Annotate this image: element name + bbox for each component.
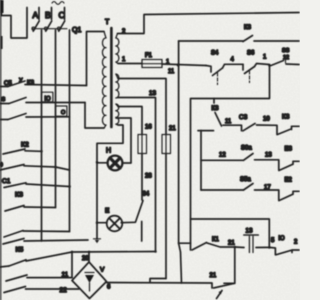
wire phase C down: [69, 30, 71, 232]
thermal element KK1 on phase A: [42, 92, 53, 102]
svg-text:10: 10: [263, 117, 270, 123]
page edge line: [0, 0, 2, 300]
wire phase A down: [41, 30, 43, 241]
svg-text:12: 12: [283, 55, 289, 61]
fuse F2 (16): [138, 135, 147, 154]
svg-text:Т: Т: [105, 19, 110, 26]
svg-text:К2: К2: [21, 142, 29, 149]
wire riser to K3 rail: [178, 41, 180, 65]
transformer secondary 3: [116, 104, 119, 125]
svg-text:1З: 1З: [149, 91, 156, 97]
svg-text:ЕЗ: ЕЗ: [285, 147, 293, 153]
svg-text:Е: Е: [105, 208, 110, 215]
contact lamp E switch: [136, 201, 144, 223]
contact row 11 (y277): [6, 275, 27, 281]
svg-text:34: 34: [143, 192, 150, 198]
svg-text:21: 21: [169, 126, 176, 132]
wire sec3 top drop: [118, 107, 142, 135]
wire fuse to buttons rail: [162, 64, 206, 66]
wire sec3 tap to lamp H: [116, 118, 131, 163]
wire rectifier top link: [88, 252, 90, 263]
contact limit switch S1: [214, 283, 235, 288]
svg-text:F1: F1: [145, 53, 153, 59]
transformer T core: [110, 28, 113, 127]
svg-text:К1: К1: [212, 237, 219, 243]
svg-text:Н: Н: [106, 148, 111, 155]
svg-text:Е2: Е2: [285, 178, 293, 184]
wire primary top lead: [87, 32, 105, 86]
svg-text:Ѕ: Ѕ: [2, 97, 6, 103]
contact row y222: [4, 231, 23, 238]
ladder row 1 (y130): [198, 130, 214, 132]
contact K3 top rail: [179, 40, 243, 42]
contact row y241: [3, 239, 24, 245]
switch Q1 pole 2: [51, 8, 53, 20]
svg-text:13: 13: [265, 153, 272, 159]
wire phase B down: [55, 30, 57, 208]
contact K1 row: [179, 242, 191, 244]
svg-text:0: 0: [0, 163, 3, 169]
svg-text:В: В: [45, 10, 51, 20]
wire sec1 bottom to fuse: [118, 63, 142, 65]
wire bottom AC bus: [26, 252, 156, 262]
svg-text:16: 16: [145, 125, 152, 131]
svg-text:21: 21: [210, 273, 217, 279]
node junction button rail: [268, 64, 271, 67]
svg-text:17: 17: [264, 185, 271, 191]
node AC squiggle: [52, 2, 64, 5]
ladder row 3 (y190): [201, 189, 244, 191]
svg-text:А: А: [33, 10, 39, 20]
svg-text:11: 11: [168, 69, 175, 75]
contact row C5/K3 (y85): [0, 86, 8, 88]
svg-text:20: 20: [82, 256, 89, 262]
svg-text:С1: С1: [2, 178, 11, 185]
svg-text:К5: К5: [16, 247, 24, 254]
wire rectifier output: [107, 283, 213, 289]
contact row y182: [4, 183, 26, 188]
fuse F3 (21): [162, 135, 171, 154]
contact row 5 (y102): [0, 103, 9, 105]
transformer secondary 2: [116, 74, 119, 98]
transformer T primary winding: [102, 32, 106, 129]
wire feed column: [178, 65, 180, 244]
limit switch arrow: [217, 291, 223, 299]
lamp E: [107, 216, 123, 232]
button S4: [206, 66, 211, 73]
svg-text:Ѕ5а: Ѕ5а: [240, 177, 251, 183]
lamp H: [108, 156, 123, 171]
wire K1 box left edge: [179, 243, 182, 283]
svg-text:КЗ: КЗ: [15, 192, 23, 199]
contact row 22 (y289): [4, 287, 26, 293]
svg-text:КЗ: КЗ: [27, 81, 34, 87]
ground: [94, 238, 101, 240]
contact K3 ladder feed: [213, 99, 215, 104]
wire sec3 bottom to common: [97, 125, 123, 239]
svg-text:Ѕ6: Ѕ6: [247, 51, 255, 57]
svg-text:У: У: [19, 78, 23, 84]
button S6: [242, 64, 244, 70]
wire bus drop to 11 row: [71, 252, 73, 278]
svg-text:Ю: Ю: [45, 97, 51, 103]
switch Q1 pole 1: [38, 8, 40, 20]
svg-text:О: О: [61, 110, 66, 116]
contact row C1 (y165): [0, 165, 24, 171]
node junction fuse rail: [177, 64, 180, 67]
transformer secondary 1: [116, 34, 119, 64]
svg-text:11: 11: [225, 119, 232, 125]
contact K5 bottom right: [276, 250, 292, 255]
rectifier V: [72, 262, 107, 299]
wire sec2 bottom drop: [118, 98, 156, 252]
wire K1 box right edge: [234, 247, 236, 283]
switch Q1 linkage: [33, 28, 68, 30]
svg-text:КЗ: КЗ: [212, 106, 219, 112]
wire primary bottom lead: [85, 103, 104, 129]
diode inside rectifier: [85, 272, 94, 274]
svg-text:28: 28: [145, 174, 152, 180]
svg-text:22: 22: [60, 287, 68, 294]
thermal element KK2 on phase B: [56, 106, 67, 116]
contact S5 right: [271, 61, 284, 66]
wire ladder left rail: [200, 131, 202, 191]
fuse F1: [142, 60, 162, 68]
svg-text:КЗ: КЗ: [244, 25, 251, 31]
svg-text:СЗ: СЗ: [239, 114, 247, 121]
svg-text:V: V: [100, 267, 105, 274]
svg-text:ЅЅ: ЅЅ: [282, 48, 290, 54]
node lamp junction: [96, 161, 99, 164]
svg-text:Ю: Ю: [279, 236, 285, 242]
node bus junction: [71, 251, 73, 253]
svg-text:Ѕ0а: Ѕ0а: [241, 146, 252, 152]
wire sec2 top drop: [118, 79, 166, 135]
svg-text:С5: С5: [4, 81, 12, 87]
svg-text:21: 21: [228, 241, 235, 247]
wire cap feed branch: [191, 219, 270, 247]
wire sec1 top to top rail: [118, 13, 300, 34]
switch Q1 pole 3: [64, 8, 66, 20]
capacitor C2: [244, 234, 258, 236]
node K1 box junction: [234, 246, 237, 249]
svg-text:12: 12: [219, 153, 226, 159]
svg-text:11: 11: [62, 272, 69, 279]
wire left input step: [0, 0, 4, 13]
svg-text:1З: 1З: [246, 229, 253, 235]
node cap row junction: [268, 246, 271, 249]
ladder row 2 (y160): [201, 159, 244, 161]
svg-text:Ѕ4: Ѕ4: [211, 51, 219, 57]
svg-text:КЗ: КЗ: [282, 114, 290, 121]
contact row 3 (y117): [0, 119, 8, 121]
wire control return bus: [191, 66, 270, 250]
svg-text:Q1: Q1: [72, 27, 81, 34]
